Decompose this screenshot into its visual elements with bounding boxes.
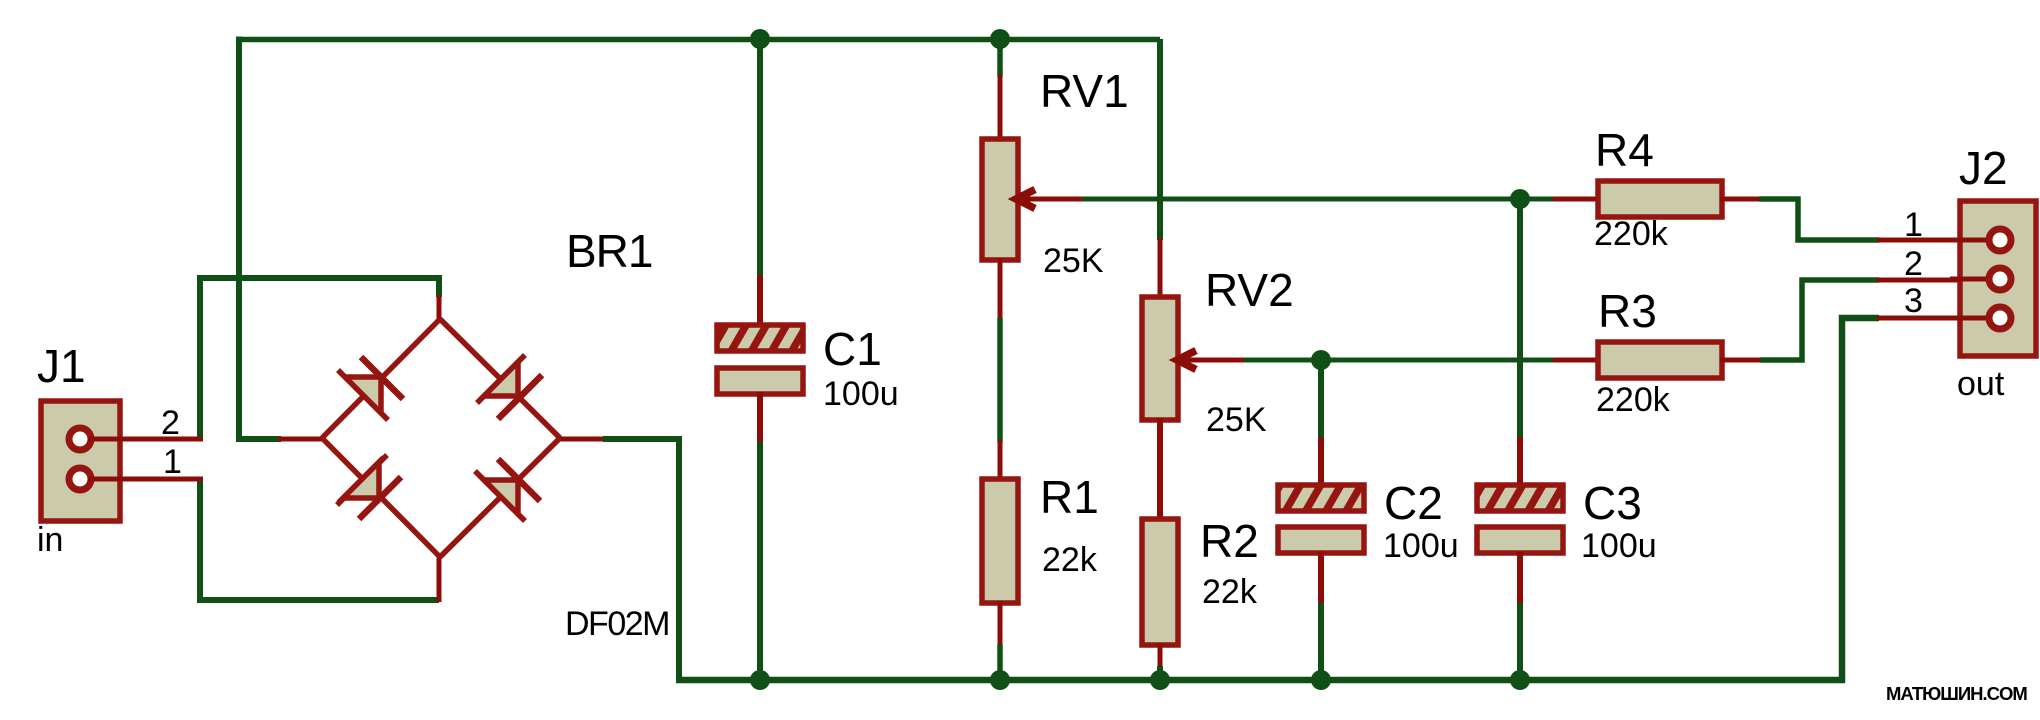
wire C3 to bottom rail bbox=[1517, 603, 1523, 680]
svg-text:3: 3 bbox=[1904, 282, 1923, 320]
resistor R4 bbox=[1553, 181, 1761, 217]
J1 pin number 1 bbox=[163, 443, 182, 481]
label C3 value 100u bbox=[1581, 527, 1657, 565]
wire J2 pin2 red bbox=[1877, 278, 1993, 283]
svg-text:100u: 100u bbox=[823, 375, 899, 413]
potentiometer RV1 bbox=[982, 75, 1084, 320]
svg-text:2: 2 bbox=[161, 404, 180, 442]
connector J2 bbox=[1950, 201, 2036, 356]
label R1 value 22k bbox=[1042, 541, 1098, 579]
svg-text:1: 1 bbox=[163, 443, 182, 481]
bridge rectifier BR1 bbox=[322, 319, 560, 557]
svg-text:220k: 220k bbox=[1594, 215, 1669, 253]
label RV1 value 25K bbox=[1043, 242, 1104, 280]
label DF02M bbox=[565, 605, 669, 643]
svg-text:R3: R3 bbox=[1598, 285, 1657, 337]
BR1 diode lower-right bbox=[475, 459, 540, 521]
resistor R1 bbox=[982, 440, 1018, 646]
junction dot C1 top bbox=[750, 29, 770, 49]
capacitor C2 bbox=[1278, 437, 1364, 605]
label R2 bbox=[1200, 515, 1259, 567]
svg-text:25K: 25K bbox=[1206, 401, 1267, 439]
label C1 value 100u bbox=[823, 375, 899, 413]
svg-text:22k: 22k bbox=[1202, 573, 1258, 611]
wire J1 pin1 to bridge bottom bbox=[200, 477, 439, 602]
label R1 bbox=[1040, 471, 1099, 523]
resistor R3 bbox=[1598, 342, 1762, 378]
svg-text:C1: C1 bbox=[823, 323, 882, 375]
wire bottom rail bbox=[676, 318, 1879, 680]
svg-text:C3: C3 bbox=[1583, 477, 1642, 529]
svg-text:BR1: BR1 bbox=[566, 225, 652, 277]
wire J2 pin3 red bbox=[1877, 316, 1993, 321]
wire bridge right to bottom rail bbox=[558, 439, 679, 680]
wire R3 left red bbox=[1553, 358, 1600, 363]
wire RV1 to R1 bbox=[997, 318, 1003, 442]
label RV2 bbox=[1205, 264, 1294, 316]
watermark bbox=[1886, 683, 2027, 704]
junction dot C1 bottom bbox=[750, 670, 770, 690]
svg-text:RV2: RV2 bbox=[1205, 264, 1294, 316]
wire RV2 branch top bbox=[1157, 39, 1163, 240]
wire top rail bbox=[239, 37, 1160, 43]
J1 pin 2 wire bbox=[88, 437, 203, 442]
label C1 bbox=[823, 323, 882, 375]
label R3 value 220k bbox=[1596, 381, 1671, 419]
label in bbox=[37, 521, 63, 559]
label RV1 bbox=[1040, 65, 1129, 117]
svg-text:J1: J1 bbox=[37, 340, 86, 392]
svg-text:C2: C2 bbox=[1384, 477, 1443, 529]
capacitor C1 bbox=[717, 275, 803, 444]
wire C1 branch top bbox=[757, 39, 763, 277]
wire RV1 branch top bbox=[997, 39, 1003, 77]
junction dot R1 bottom bbox=[990, 670, 1010, 690]
svg-text:J2: J2 bbox=[1959, 142, 2008, 194]
svg-text:МАТЮШИН.COM: МАТЮШИН.COM bbox=[1886, 683, 2027, 704]
wire C2 branch bbox=[1318, 360, 1324, 439]
svg-text:R1: R1 bbox=[1040, 471, 1099, 523]
svg-text:RV1: RV1 bbox=[1040, 65, 1129, 117]
svg-text:100u: 100u bbox=[1581, 527, 1657, 565]
J1 pin number 2 bbox=[161, 404, 180, 442]
connector J1 bbox=[41, 401, 120, 521]
label out bbox=[1957, 365, 2005, 403]
resistor R2 bbox=[1142, 519, 1178, 668]
junction dot C2 node bbox=[1311, 350, 1331, 370]
label RV2 value 25K bbox=[1206, 401, 1267, 439]
label R3 bbox=[1598, 285, 1657, 337]
svg-text:1: 1 bbox=[1904, 206, 1923, 244]
capacitor C3 bbox=[1477, 437, 1563, 605]
svg-text:220k: 220k bbox=[1596, 381, 1671, 419]
svg-text:25K: 25K bbox=[1043, 242, 1104, 280]
junction dot C3 bottom bbox=[1510, 670, 1530, 690]
wire C1 branch bottom bbox=[757, 442, 763, 680]
junction dot C2 bottom bbox=[1311, 670, 1331, 690]
label R4 bbox=[1595, 124, 1654, 176]
wire R3 to J2 pin2 bbox=[1760, 280, 1879, 360]
svg-text:R4: R4 bbox=[1595, 124, 1654, 176]
junction dot R2 bottom bbox=[1150, 670, 1170, 690]
wire J1 pin2 to bridge top bbox=[200, 278, 439, 441]
BR1 diode upper-right bbox=[477, 355, 542, 419]
label R4 value 220k bbox=[1594, 215, 1669, 253]
wire R4 to J2 pin1 bbox=[1759, 199, 1879, 240]
wire C3 branch bbox=[1517, 199, 1523, 439]
J2 pin number 2 bbox=[1904, 245, 1923, 283]
label J2 bbox=[1959, 142, 2008, 194]
label R2 value 22k bbox=[1202, 573, 1258, 611]
label C2 value 100u bbox=[1383, 527, 1459, 565]
junction dot RV1 top bbox=[990, 29, 1010, 49]
BR1 diode upper-left bbox=[338, 357, 403, 420]
wire R1 to bottom rail bbox=[997, 644, 1003, 680]
label BR1 bbox=[566, 225, 652, 277]
svg-text:out: out bbox=[1957, 365, 2005, 403]
svg-text:100u: 100u bbox=[1383, 527, 1459, 565]
svg-text:R2: R2 bbox=[1200, 515, 1259, 567]
label J1 bbox=[37, 340, 86, 392]
label C2 bbox=[1384, 477, 1443, 529]
potentiometer RV2 bbox=[1142, 238, 1246, 521]
label C3 bbox=[1583, 477, 1642, 529]
wire C2 to bottom rail bbox=[1318, 603, 1324, 680]
J2 pin number 1 bbox=[1904, 206, 1923, 244]
BR1 diode lower-left bbox=[337, 455, 401, 519]
wire RV1 wiper bbox=[1082, 197, 1555, 202]
J2 pin number 3 bbox=[1904, 282, 1923, 320]
wire left DC vertical bbox=[239, 37, 324, 440]
svg-text:DF02M: DF02M bbox=[565, 605, 669, 643]
J1 pin 1 wire bbox=[88, 477, 203, 482]
wire RV2 wiper bbox=[1244, 358, 1555, 363]
junction dot R4 node bbox=[1510, 189, 1530, 209]
wire R2 to bottom rail bbox=[1157, 666, 1163, 680]
svg-text:2: 2 bbox=[1904, 245, 1923, 283]
wire J2 pin1 red bbox=[1877, 238, 1993, 243]
svg-text:22k: 22k bbox=[1042, 541, 1098, 579]
svg-text:in: in bbox=[37, 521, 63, 559]
